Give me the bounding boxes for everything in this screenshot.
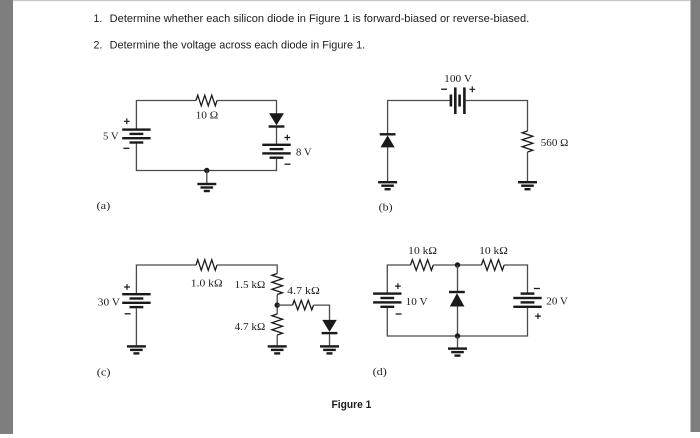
ground (c) middle bbox=[268, 345, 287, 354]
wire: (d) middle branch upper bbox=[457, 265, 459, 291]
wire: (c) R4 to node bbox=[276, 295, 278, 315]
diode D2 (b) pointing up bbox=[380, 133, 396, 147]
wire: (b) top-left segment bbox=[388, 101, 450, 134]
wire: (a) diode to battery B2 bbox=[276, 128, 278, 144]
minus sign of B6 bbox=[534, 288, 540, 290]
diode D4 (d) pointing up bbox=[449, 291, 465, 307]
resistor R7 10k (d) bbox=[411, 260, 434, 271]
svg-text:5 V: 5 V bbox=[103, 131, 119, 142]
battery B4 30V (c) bbox=[122, 293, 150, 308]
node: (d) top junction dot bbox=[455, 262, 460, 267]
plus sign of B2 bbox=[284, 135, 290, 141]
problem text line 2 bbox=[94, 39, 366, 51]
svg-text:Determine the voltage across e: Determine the voltage across each diode … bbox=[110, 39, 366, 51]
svg-text:(c): (c) bbox=[97, 367, 111, 378]
plus sign of B3 bbox=[469, 86, 475, 92]
wire: (c) top-left segment bbox=[136, 265, 196, 293]
problem text line 1 bbox=[94, 13, 530, 25]
svg-text:4.7 kΩ: 4.7 kΩ bbox=[235, 322, 266, 333]
svg-text:20 V: 20 V bbox=[546, 297, 568, 308]
battery B1 5V (a) bbox=[122, 128, 150, 143]
wire: (c) node to horizontal resistor bbox=[277, 304, 292, 306]
minus sign of B1 bbox=[123, 147, 129, 149]
diode D1 (a) pointing down bbox=[269, 113, 285, 128]
svg-text:4.7 kΩ: 4.7 kΩ bbox=[287, 286, 320, 297]
svg-text:10 Ω: 10 Ω bbox=[196, 111, 219, 122]
minus sign of B3 bbox=[441, 88, 447, 90]
wire: (d) top-left segment bbox=[387, 265, 410, 293]
wire: (d) ground stem bbox=[457, 336, 459, 348]
svg-text:1.: 1. bbox=[94, 13, 103, 25]
svg-text:100 V: 100 V bbox=[444, 74, 472, 85]
svg-text:(a): (a) bbox=[97, 201, 111, 212]
resistor R2 560 ohm (b) vertical bbox=[522, 131, 533, 152]
left gray scrollbar/edge bbox=[0, 0, 13, 434]
svg-text:10 V: 10 V bbox=[406, 297, 428, 308]
wire: (a) top-right segment bbox=[217, 101, 277, 114]
svg-text:10 kΩ: 10 kΩ bbox=[479, 246, 508, 257]
minus sign of B4 bbox=[125, 313, 131, 315]
minus sign of B5 bbox=[396, 313, 402, 315]
wire: (d) top-middle segment bbox=[433, 264, 481, 266]
node: (a) bottom junction dot bbox=[204, 168, 209, 173]
wire: (c) R6 to diode bbox=[314, 305, 330, 320]
battery B3 100V (b) horizontal bbox=[450, 87, 466, 114]
svg-text:10 kΩ: 10 kΩ bbox=[408, 246, 437, 257]
resistor R3 1.0k (c) bbox=[196, 260, 217, 271]
node: (c) junction dot bbox=[275, 302, 280, 307]
ground (c) left bbox=[127, 345, 146, 354]
wire: (c) diode to ground bbox=[329, 334, 331, 345]
svg-text:30 V: 30 V bbox=[98, 297, 121, 308]
svg-text:(b): (b) bbox=[379, 203, 394, 214]
wire: (b) resistor to ground bbox=[527, 152, 529, 181]
wire: (c) top-right segment bbox=[217, 265, 277, 274]
node: (d) bottom junction dot bbox=[455, 333, 460, 338]
minus sign of B2 bbox=[285, 163, 291, 165]
resistor R4 1.5k (c) vertical bbox=[272, 274, 283, 295]
battery B2 8V (a) bbox=[262, 144, 290, 159]
wire: (b) top-right segment bbox=[466, 101, 528, 132]
wire: (a) ground stem bbox=[206, 171, 208, 184]
resistor R6 4.7k (c) horizontal bbox=[293, 300, 314, 310]
ground (d) bbox=[448, 347, 467, 356]
top hairline bbox=[13, 0, 691, 1]
ground (b) left bbox=[378, 181, 397, 190]
wire: (d) middle branch lower bbox=[457, 307, 459, 337]
svg-text:1.0 kΩ: 1.0 kΩ bbox=[191, 278, 223, 289]
diode D3 (c) pointing down bbox=[322, 320, 338, 334]
wire: (a) bottom-left segment bbox=[136, 143, 206, 171]
resistor R8 10k (d) bbox=[481, 260, 504, 271]
plus sign of B6 bbox=[535, 313, 541, 319]
svg-text:Determine whether each silicon: Determine whether each silicon diode in … bbox=[110, 13, 530, 25]
ground (c) right bbox=[320, 345, 339, 354]
svg-text:(d): (d) bbox=[373, 367, 388, 378]
wire: (c) R5 to ground bbox=[276, 335, 278, 345]
plus sign of B5 bbox=[395, 283, 401, 289]
ground (a) bbox=[197, 183, 216, 192]
svg-text:1.5 kΩ: 1.5 kΩ bbox=[235, 280, 266, 291]
battery B6 20V (d) bbox=[513, 292, 541, 308]
wire: (d) bottom rail bbox=[387, 308, 527, 336]
resistor R1 10 ohm (a) bbox=[196, 95, 217, 106]
svg-text:Figure 1: Figure 1 bbox=[332, 399, 372, 411]
plus sign of B1 bbox=[124, 118, 130, 124]
ground (b) right bbox=[518, 181, 537, 190]
wire: (a) top-left segment bbox=[136, 101, 196, 129]
svg-text:2.: 2. bbox=[94, 39, 103, 51]
wire: (d) top-right segment bbox=[504, 265, 527, 293]
svg-text:560 Ω: 560 Ω bbox=[541, 138, 569, 149]
battery B5 10V (d) bbox=[373, 292, 401, 308]
right gray scrollbar/edge bbox=[691, 0, 700, 432]
wire: (a) battery B2 to bottom-right corner bbox=[207, 159, 277, 171]
resistor R5 4.7k (c) vertical bbox=[272, 314, 283, 335]
plus sign of B4 bbox=[124, 284, 130, 290]
wire: (b) diode to ground bbox=[387, 147, 389, 181]
wire: (c) battery to ground bbox=[135, 308, 137, 345]
svg-text:8 V: 8 V bbox=[296, 148, 312, 159]
